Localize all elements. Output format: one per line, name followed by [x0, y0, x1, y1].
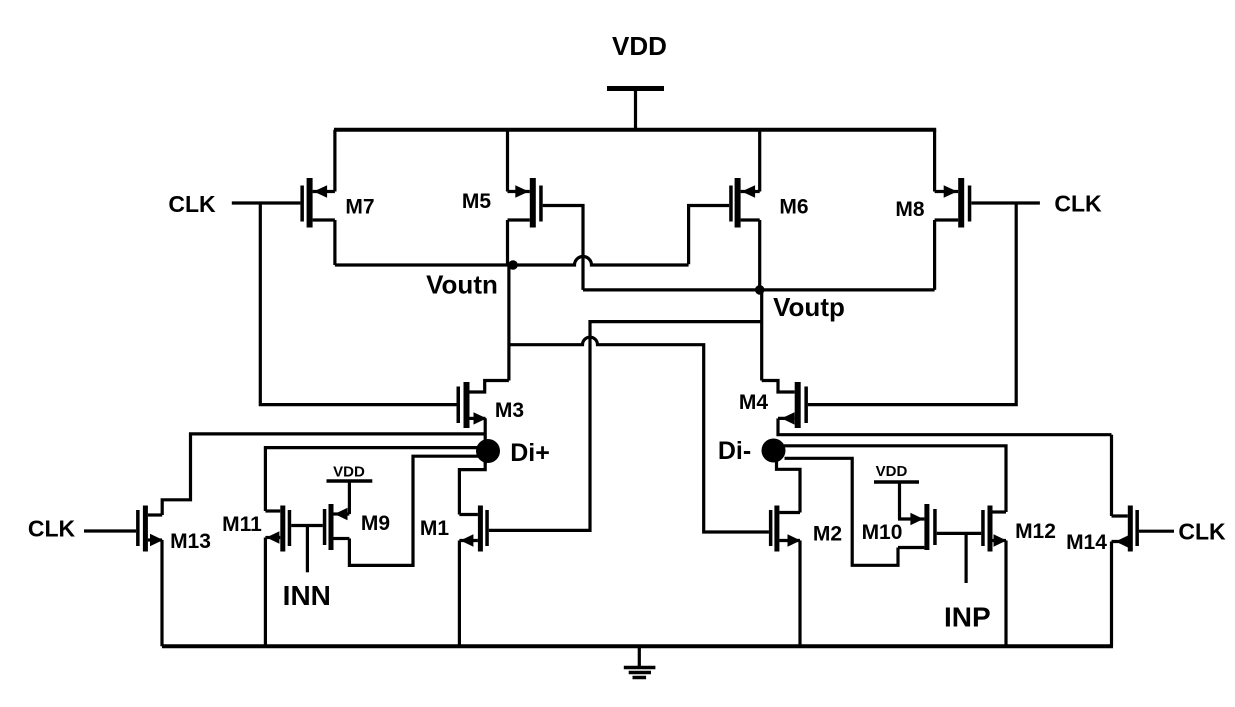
wire Voutp [583, 288, 935, 291]
wire M14 drain vertical [1110, 435, 1113, 516]
wire Voutn down to M3 drain [507, 265, 510, 381]
svg-text:M1: M1 [420, 517, 449, 540]
svg-text:Voutp: Voutp [773, 292, 845, 322]
transistor M1 (NMOS, mirrored) [459, 506, 488, 552]
wire M2 source to ground rail [798, 541, 801, 647]
wire M6 drain to rail [758, 130, 761, 192]
svg-text:M5: M5 [462, 190, 491, 213]
svg-text:Di+: Di+ [510, 439, 550, 467]
wire M7 drain to rail [333, 130, 336, 192]
wire CLK to M7 gate [232, 201, 301, 204]
transistor M6 (PMOS) [729, 178, 760, 228]
transistor M2 (NMOS) [769, 506, 801, 552]
wire ground rail [162, 644, 1113, 648]
transistor M5 (PMOS, mirrored) [508, 178, 543, 228]
svg-text:M9: M9 [361, 512, 390, 535]
wire M5 gate to Voutp (crosses Voutn) [543, 206, 583, 290]
transistor M3 (NMOS) [457, 381, 509, 429]
svg-text:M3: M3 [495, 399, 524, 422]
svg-text:M2: M2 [813, 523, 842, 546]
svg-text:M13: M13 [170, 530, 211, 553]
wire M14 gate to CLK [1139, 530, 1174, 533]
wire Voutp down to M4 drain [760, 290, 763, 381]
VDD supply symbol at M9 [327, 481, 373, 514]
wire Di- line to M12 drain [784, 446, 1006, 512]
wire M8 gate to CLK [971, 201, 1040, 204]
wire M9 source line to Di+ [349, 456, 482, 565]
svg-text:M6: M6 [779, 196, 808, 219]
svg-text:VDD: VDD [612, 31, 667, 61]
wire INN tap [306, 526, 309, 573]
transistor M7 (PMOS) [300, 178, 335, 228]
wire M5 drain to rail [506, 130, 509, 192]
VDD supply symbol top [607, 89, 664, 132]
wire M10-M12 gate wire [937, 532, 982, 535]
svg-text:M12: M12 [1015, 520, 1056, 543]
transistor M14 (NMOS, mirrored) [1112, 506, 1139, 552]
node Di+ dot [476, 439, 500, 463]
transistor M9 (PMOS) [323, 504, 350, 550]
wire M3 source into Di+ [484, 418, 487, 464]
wire M14 source to ground rail [1110, 542, 1113, 647]
transistor M13 (NMOS) [136, 506, 163, 552]
svg-text:M8: M8 [895, 198, 924, 221]
wire M4 source to M14 drain [778, 418, 1112, 434]
wire M12 source to ground rail [1004, 541, 1007, 647]
wire Di- line to M10 source [785, 458, 899, 565]
node Voutn junction dot [508, 260, 518, 270]
wire Di- jog down to M2 drain [777, 460, 801, 513]
transistor M4 (NMOS, mirrored) [762, 381, 808, 429]
svg-text:Di-: Di- [718, 437, 751, 465]
node Di- dot [762, 439, 786, 463]
svg-text:INP: INP [944, 602, 991, 633]
wire CLK to M13 gate [84, 529, 136, 532]
VDD supply symbol at M10 [874, 482, 919, 519]
svg-text:M4: M4 [739, 391, 768, 414]
wire CLK right branch down to M4 gate [808, 203, 1016, 405]
wire M8 drain to rail [933, 130, 936, 192]
svg-text:VDD: VDD [333, 464, 365, 481]
wire M13 drain line to Di+ [162, 434, 485, 515]
svg-text:M7: M7 [345, 196, 374, 219]
svg-text:CLK: CLK [168, 191, 216, 217]
svg-text:M10: M10 [862, 521, 903, 544]
wire M7 source down to Voutn [333, 220, 336, 265]
ground symbol [624, 646, 656, 677]
svg-text:CLK: CLK [1178, 519, 1226, 545]
svg-text:INN: INN [283, 580, 331, 611]
transistor M8 (PMOS, mirrored) [935, 178, 972, 228]
wire Voutn (hops over M5 gate line) [335, 257, 689, 266]
svg-text:M14: M14 [1066, 531, 1107, 554]
wire M6 source down to Voutp [758, 220, 761, 290]
transistor M12 (NMOS) [981, 506, 1006, 552]
wire M11 drain line to Di+ [265, 448, 484, 511]
wire M11-M9 gate wire [291, 524, 323, 527]
svg-text:CLK: CLK [1054, 191, 1102, 217]
wire M11 source to ground rail [264, 538, 267, 647]
wire M8 source down to Voutp [933, 220, 936, 290]
wire INP tap [964, 533, 967, 583]
svg-text:M11: M11 [222, 513, 262, 536]
node Voutp junction dot [755, 285, 765, 295]
wire CLK left branch down to M3 gate [260, 203, 456, 405]
svg-text:Voutn: Voutn [426, 270, 498, 300]
wire M1 source to ground rail [458, 541, 461, 647]
wire VDD top rail [334, 128, 936, 132]
wire M6 gate to Voutn [689, 206, 730, 265]
wire M5 source down to Voutn [506, 220, 509, 265]
wire Voutn branch to M2 gate (hops over M1 gate line) [509, 337, 769, 532]
svg-text:VDD: VDD [876, 463, 908, 480]
wire Voutp branch to M1 gate [489, 322, 762, 531]
wire M13 source to ground rail [160, 540, 163, 646]
transistor M11 (NMOS, mirrored) [265, 506, 291, 552]
transistor M10 (PMOS, mirrored) [898, 504, 937, 550]
wire Di+ jog down to M1 drain [459, 460, 485, 515]
svg-text:CLK: CLK [28, 516, 76, 542]
